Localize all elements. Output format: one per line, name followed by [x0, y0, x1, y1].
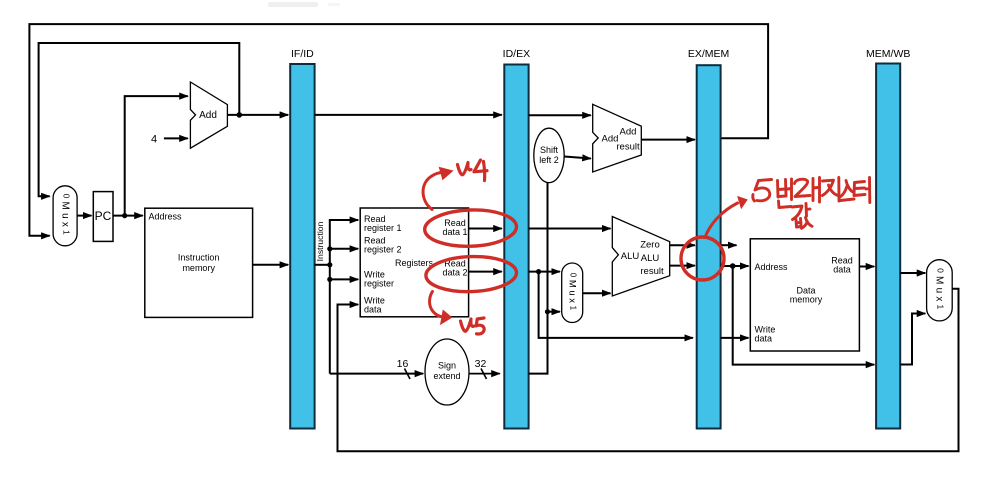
mux M1 (PC source mux): [53, 186, 77, 246]
red label r5: [461, 318, 485, 334]
glyph beon: [778, 179, 792, 208]
svg-text:left 2: left 2: [539, 155, 559, 165]
wire Add out to IF/ID: [227, 112, 288, 118]
adder Add (IF stage): [190, 82, 227, 148]
wire read data 1 ID/EX to ALU: [529, 228, 611, 230]
glyph gab: [792, 204, 812, 229]
mux M3 (write-back): [927, 260, 953, 321]
svg-text:16: 16: [397, 358, 409, 370]
svg-text:Add: Add: [199, 110, 217, 121]
red korean annotation: 5번 레지스터 / 값: [753, 178, 870, 229]
wire instruction memory out to IF/ID: [253, 264, 289, 266]
svg-text:Shift: Shift: [540, 145, 559, 155]
red label r4: [458, 160, 488, 181]
glyph teo: [854, 178, 870, 203]
label 4 and wire into Add: [151, 133, 188, 145]
registers block: [360, 208, 468, 317]
red oval around Read data 2: [425, 255, 517, 293]
instruction memory: [145, 208, 253, 317]
wire write-back return to registers write data: [338, 289, 959, 452]
wire instruction bus: [315, 220, 359, 374]
svg-text:extend: extend: [433, 371, 460, 381]
svg-text:32: 32: [475, 358, 487, 370]
svg-text:Zero: Zero: [640, 240, 660, 251]
wire read data MEM/WB to WB mux: [900, 272, 925, 274]
wire mux to PC: [77, 215, 91, 217]
svg-text:data: data: [364, 305, 382, 315]
svg-text:EX/MEM: EX/MEM: [688, 48, 729, 60]
svg-text:0Mux1: 0Mux1: [567, 273, 578, 313]
svg-text:data: data: [755, 334, 773, 344]
svg-text:data 1: data 1: [442, 227, 467, 237]
svg-text:Address: Address: [149, 212, 183, 222]
svg-text:PC: PC: [95, 209, 112, 223]
wire PC+4 ID/EX to Add EX: [529, 114, 591, 116]
wire shift out to Add EX: [564, 157, 591, 159]
wire PC+4 feedback (Add output to PC mux, inner loop): [39, 43, 240, 196]
red arrow to r4: [423, 168, 452, 210]
wire ALU result to EX/MEM: [670, 265, 695, 267]
svg-text:4: 4: [151, 133, 157, 145]
svg-text:data: data: [833, 265, 851, 275]
svg-text:register: register: [364, 279, 394, 289]
svg-text:MEM/WB: MEM/WB: [866, 48, 910, 60]
svg-text:ALU: ALU: [621, 251, 640, 262]
wire read data 1 to ID/EX: [469, 228, 502, 230]
adder Add (EX stage): [593, 104, 642, 172]
wire read data 2 ID/EX to ALUSrc mux and EX/MEM: [529, 269, 693, 338]
svg-text:0Mux1: 0Mux1: [934, 268, 945, 312]
pipeline register EX/MEM: [688, 48, 729, 429]
wire sign extend out with 32 slash: [469, 358, 500, 379]
red circle on EX/MEM (register 5 value): [681, 237, 724, 280]
svg-text:memory: memory: [790, 295, 823, 305]
glyph seu: [840, 181, 854, 201]
pipeline register ID/EX: [503, 48, 530, 429]
svg-text:ALU: ALU: [641, 253, 660, 264]
wire ALU result to data memory address and MEM/WB bypass: [721, 263, 875, 364]
wire PC+4 IF/ID to ID/EX: [315, 114, 502, 116]
wire Add result to EX/MEM: [641, 139, 695, 141]
register PC: [93, 192, 113, 242]
mux M2 (ALUSrc): [562, 263, 583, 323]
faint smudge top: [268, 2, 340, 7]
data memory: [750, 239, 859, 351]
svg-text:0Mux1: 0Mux1: [60, 194, 71, 238]
red arrow to korean label: [705, 197, 747, 238]
shift left 2: [534, 128, 564, 182]
svg-text:Registers: Registers: [395, 258, 434, 268]
pipeline register IF/ID: [290, 48, 314, 429]
sign extend: [425, 339, 469, 405]
ALU: [612, 217, 669, 297]
wire PC to instruction memory (junction to Add): [113, 96, 188, 218]
wire read data to MEM/WB: [859, 266, 874, 268]
red arrow to r5: [430, 292, 452, 324]
svg-text:Instruction: Instruction: [178, 253, 220, 263]
wire read data 2 to ID/EX: [469, 271, 502, 273]
svg-text:Add: Add: [620, 127, 637, 138]
wire sign-extended ID/EX to shift left 2 and mux: [529, 183, 560, 374]
svg-text:register 2: register 2: [364, 245, 402, 255]
svg-text:Sign: Sign: [438, 361, 456, 371]
wire Zero to EX/MEM: [670, 244, 695, 246]
glyph 5: [753, 180, 772, 202]
svg-text:result: result: [616, 142, 640, 153]
svg-text:IF/ID: IF/ID: [291, 48, 314, 60]
svg-text:memory: memory: [182, 263, 215, 273]
svg-text:ID/EX: ID/EX: [503, 48, 530, 60]
svg-text:Instruction: Instruction: [315, 221, 325, 261]
svg-text:Address: Address: [755, 262, 789, 272]
glyph ji: [822, 178, 839, 202]
wire branch-target feedback (EX/MEM to PC mux, outer loop): [29, 24, 768, 236]
svg-text:result: result: [640, 266, 664, 277]
glyph re: [795, 178, 820, 203]
wire mux to ALU: [583, 292, 611, 294]
pipeline register MEM/WB: [866, 48, 910, 429]
wire Zero stub after EX/MEM: [721, 244, 737, 246]
wire instr[15-0] to sign extend with 16 slash: [330, 358, 423, 379]
red oval around Read data 1: [424, 208, 517, 247]
wire write data into data memory: [721, 337, 749, 339]
svg-text:data 2: data 2: [442, 268, 467, 278]
svg-text:register 1: register 1: [364, 223, 402, 233]
wire ALU result MEM/WB to WB mux: [900, 314, 925, 365]
